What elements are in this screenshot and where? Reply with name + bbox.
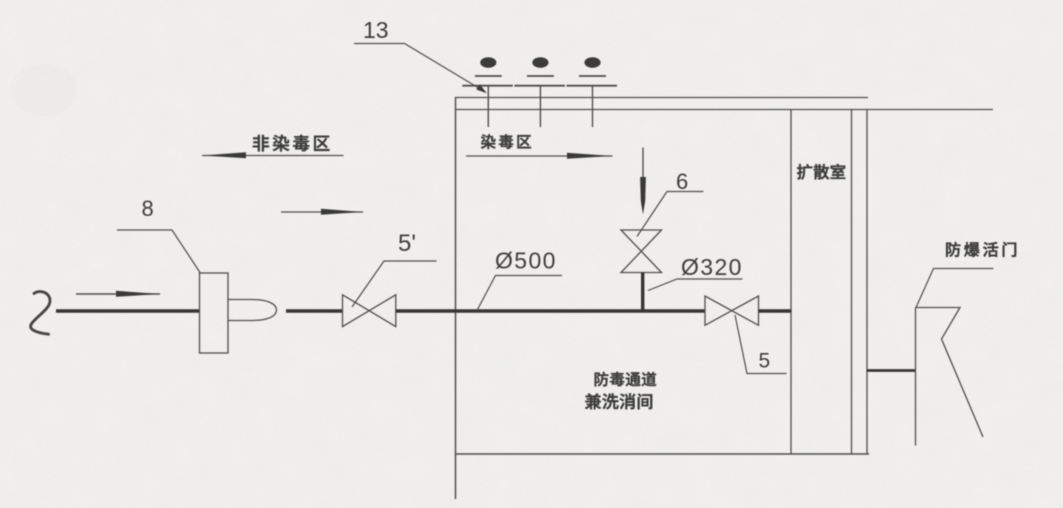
ceiling fixture 3 mounting line [567, 85, 618, 87]
leader line for 5prime [352, 261, 437, 307]
svg-text:Ø320: Ø320 [681, 254, 743, 280]
ceiling fixture 1 base line [475, 75, 502, 77]
duct stub to blast valve [867, 369, 916, 372]
leader line for diameter 320 [648, 279, 743, 291]
fan unit 8 outlet bullet [229, 300, 277, 321]
pipe segment: valve 5 to interior wall [759, 309, 792, 313]
ceiling fixture 1 (item 13) blob [480, 57, 496, 68]
ceiling fixture 2 mounting line [514, 85, 565, 87]
valve 5prime bowtie [343, 295, 396, 327]
down arrowhead above valve 6 [640, 177, 646, 215]
left wall of contaminated room [455, 98, 457, 500]
room label: diffusion chamber [797, 164, 845, 180]
interior wall [790, 110, 792, 455]
leader line for 6 [637, 192, 704, 237]
ceiling fixture 1 mounting line [462, 85, 513, 87]
ceiling fixture 2 (item 13) blob [532, 57, 548, 68]
valve 6 hourglass [621, 230, 662, 273]
pipe segment: valve 5prime to valve 5 [396, 309, 705, 313]
leader line for blast-proof valve [916, 269, 994, 308]
valve 5 bowtie [705, 296, 759, 325]
zone label: contaminated area [481, 134, 531, 148]
blast valve body [916, 308, 984, 446]
pipe break squiggle [31, 292, 50, 335]
bottom wall [455, 453, 869, 455]
ceiling fixture 2 base line [527, 75, 554, 77]
svg-text:5': 5' [398, 230, 416, 257]
inlet flow arrowhead [116, 291, 160, 297]
leader line for 5 [735, 315, 787, 374]
leader line for 8 [117, 230, 200, 273]
down arrow shaft above valve 6 [642, 148, 644, 193]
svg-text:8: 8 [142, 196, 154, 221]
ceiling fixture 3 (item 13) blob [584, 57, 600, 68]
leader line for diameter 500 [477, 276, 562, 311]
left-pointing zone arrow line [202, 155, 344, 157]
pipe segment: fan to valve 5prime [286, 309, 343, 313]
ceiling fixture 2 drop stub [539, 86, 541, 127]
room label: washing room line 2 [585, 393, 652, 409]
left-pointing zone arrowhead [202, 152, 246, 158]
svg-text:6: 6 [676, 169, 688, 194]
branch pipe below valve 6 [641, 273, 644, 313]
leader line for 13 [354, 44, 485, 92]
top wall line (inner) [455, 97, 868, 99]
label: blast-proof valve [946, 242, 1016, 257]
svg-text:5: 5 [759, 350, 771, 373]
pipe segment: inlet to fan [56, 309, 200, 313]
ceiling fixture 3 base line [579, 75, 606, 77]
fan unit 8 body [200, 273, 229, 353]
leader arrowhead for 13 [476, 84, 487, 93]
ceiling fixture 1 drop stub [487, 86, 489, 127]
right wall outer line [866, 110, 868, 455]
ceiling fixture 3 drop stub [592, 86, 594, 127]
right-pointing zone arrowhead [567, 153, 613, 159]
inlet flow arrow line [76, 293, 160, 295]
svg-text:Ø500: Ø500 [495, 248, 557, 274]
svg-text:13: 13 [363, 17, 389, 43]
middle flow arrow line [281, 211, 363, 213]
room label: gas-proof passage line 1 [595, 372, 657, 387]
zone label: non-contaminated area [253, 135, 330, 151]
right-pointing zone arrow line [466, 155, 613, 157]
top wall line (outer) [455, 109, 993, 111]
middle flow arrowhead [321, 209, 363, 215]
right wall inner line [851, 110, 853, 455]
